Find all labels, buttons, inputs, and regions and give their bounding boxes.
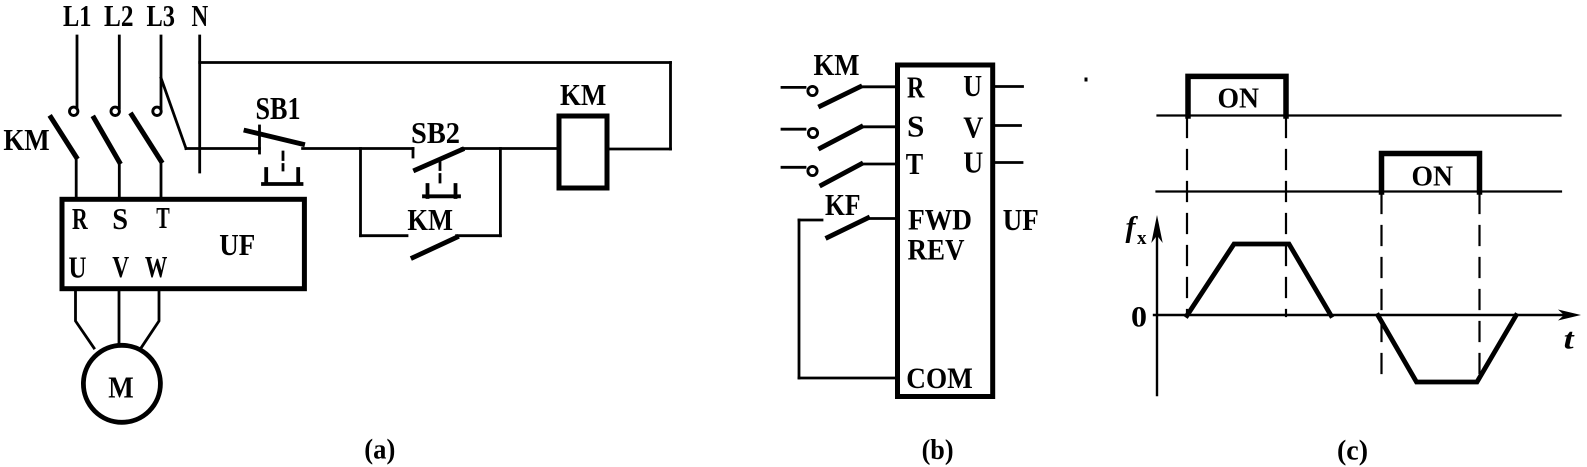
contact KM aux blade xyxy=(413,237,457,257)
SB2 button cap xyxy=(424,185,459,197)
ON pulse 2 xyxy=(1382,154,1480,193)
wire parallel branch bottom right xyxy=(457,234,501,237)
svg-text:SB2: SB2 xyxy=(411,115,460,150)
dashed line t1 xyxy=(1186,118,1188,316)
wire V output stub xyxy=(995,124,1021,127)
contact SB1 fixed tick xyxy=(258,126,261,153)
wire SB2 to coil xyxy=(462,147,559,150)
motor M circle xyxy=(83,345,160,422)
terminal circle S xyxy=(808,128,817,137)
wire L3 drop xyxy=(160,36,163,108)
contact KM blade T xyxy=(822,164,861,185)
dashed line t3 xyxy=(1380,194,1382,382)
svg-text:KM: KM xyxy=(814,47,860,82)
svg-text:L3: L3 xyxy=(147,0,176,33)
wire N drop xyxy=(198,36,201,172)
inverter box b xyxy=(898,65,993,397)
wire L2 drop xyxy=(118,36,121,108)
wire R stub to box xyxy=(860,85,897,88)
wire U output xyxy=(76,289,95,348)
svg-text:M: M xyxy=(108,370,134,405)
wire right vertical xyxy=(669,63,672,150)
contact SB1 blade xyxy=(246,131,303,145)
svg-text:(a): (a) xyxy=(364,435,395,466)
fx axis arrowhead xyxy=(1151,215,1162,243)
svg-text:S: S xyxy=(112,201,128,236)
SB1 actuator dashes xyxy=(282,152,285,170)
wire S stub to box xyxy=(861,125,897,128)
svg-text:N: N xyxy=(192,0,209,33)
speck artifact xyxy=(1085,78,1088,82)
dashed line t4 xyxy=(1478,194,1480,382)
inverter UF box xyxy=(62,199,304,288)
waveform negative trapezoid xyxy=(1378,316,1516,383)
contact KM blade phase2 xyxy=(94,118,119,162)
contact SB2 left tick xyxy=(412,149,415,158)
contact SB2 blade xyxy=(416,150,463,171)
wire L1 drop xyxy=(76,36,79,108)
svg-text:U: U xyxy=(69,250,87,285)
SB1 button cap xyxy=(263,169,302,184)
svg-text:R: R xyxy=(72,201,88,236)
svg-text:U: U xyxy=(963,68,982,103)
svg-text:KM: KM xyxy=(560,77,606,112)
wire V output xyxy=(118,289,121,346)
terminal circle L2 xyxy=(111,107,119,115)
wire L3 tap diagonal xyxy=(161,78,186,149)
svg-text:REV: REV xyxy=(908,234,965,267)
wire KF loop left xyxy=(798,220,801,378)
contact KM blade phase1 xyxy=(51,118,76,158)
t axis arrowhead xyxy=(1558,310,1581,321)
terminal circle R xyxy=(808,86,817,95)
signal baseline 2 xyxy=(1157,190,1562,192)
wire U output stub xyxy=(995,85,1023,88)
svg-text:KF: KF xyxy=(825,187,861,222)
wire R input xyxy=(782,86,805,89)
wire R to UF box xyxy=(75,157,78,199)
svg-text:KM: KM xyxy=(3,122,49,157)
wire KF stub to box xyxy=(868,217,897,220)
t axis xyxy=(1154,314,1566,316)
contact KM blade R xyxy=(821,87,861,106)
wire T to UF box xyxy=(160,161,163,199)
svg-text:(b): (b) xyxy=(922,435,954,466)
dashed line t2 xyxy=(1285,118,1287,316)
svg-text:x: x xyxy=(1137,228,1147,249)
terminal circle T xyxy=(808,166,817,175)
wire KF loop bottom xyxy=(799,377,897,380)
wire KF loop top xyxy=(799,219,822,222)
ON pulse 1 xyxy=(1188,76,1286,116)
wire parallel branch right xyxy=(499,149,502,236)
svg-text:ON: ON xyxy=(1218,83,1260,115)
wire KM coil to right xyxy=(607,148,671,151)
terminal circle L3 xyxy=(153,107,161,115)
wire SB1 to SB2 xyxy=(303,147,413,150)
svg-text:KM: KM xyxy=(407,202,453,237)
contact KM blade phase3 xyxy=(132,115,161,161)
signal baseline 1 xyxy=(1158,114,1561,116)
wire N top horizontal xyxy=(200,61,671,64)
svg-text:SB1: SB1 xyxy=(256,90,301,126)
wire U2 output stub xyxy=(995,161,1022,164)
waveform positive trapezoid xyxy=(1187,244,1331,316)
svg-text:R: R xyxy=(907,70,925,105)
fx axis xyxy=(1156,228,1158,395)
SB2 actuator dashes xyxy=(439,162,442,185)
svg-text:T: T xyxy=(906,146,924,181)
svg-text:ON: ON xyxy=(1412,161,1454,193)
wire T input xyxy=(782,166,805,169)
svg-text:FWD: FWD xyxy=(908,204,972,237)
svg-text:COM: COM xyxy=(906,362,973,395)
wire parallel branch bottom left xyxy=(361,234,408,237)
svg-text:U: U xyxy=(963,145,983,180)
svg-text:V: V xyxy=(963,110,984,145)
svg-text:(c): (c) xyxy=(1337,436,1368,467)
svg-text:0: 0 xyxy=(1131,301,1147,334)
wire S to UF box xyxy=(118,162,121,199)
coil KM box xyxy=(559,116,607,188)
svg-text:UF: UF xyxy=(219,227,255,262)
wire S input xyxy=(782,128,805,131)
svg-text:T: T xyxy=(156,200,170,235)
svg-text:UF: UF xyxy=(1003,202,1039,237)
wire control feed xyxy=(186,147,260,150)
contact KF blade xyxy=(828,218,868,237)
svg-text:V: V xyxy=(112,249,129,284)
terminal circle L1 xyxy=(70,107,78,115)
svg-text:W: W xyxy=(145,249,168,284)
svg-text:S: S xyxy=(907,108,924,143)
wire T stub to box xyxy=(861,163,897,166)
wire parallel branch left xyxy=(359,149,362,236)
svg-text:L1: L1 xyxy=(63,0,92,33)
contact KM blade S xyxy=(821,127,862,148)
wire W output xyxy=(141,289,159,348)
svg-text:L2: L2 xyxy=(104,0,134,33)
